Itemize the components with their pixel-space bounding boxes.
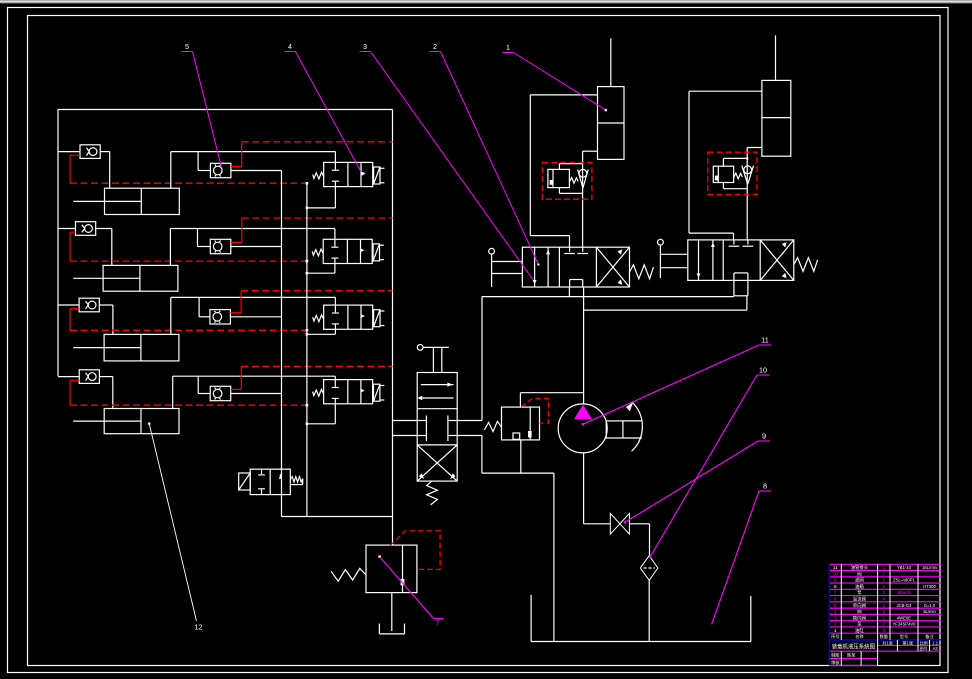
leader 2 (to valve1 flow path) [430, 42, 540, 266]
svg-text:5: 5 [185, 42, 189, 51]
svg-text:备注: 备注 [925, 633, 934, 640]
red pilot riser row4 (to solenoid pilot header) [231, 366, 393, 389]
svg-text:4WE6E: 4WE6E [897, 615, 911, 620]
wire C1 cap-side port via counterbalance to MV1 B [583, 151, 598, 247]
svg-text:1: 1 [883, 578, 886, 583]
junction dot row3 valve drain at bus [306, 333, 309, 336]
check valve CV1 (row 1 inlet check) [80, 145, 100, 159]
main reservoir tank T8 [531, 595, 751, 642]
CB1 check valve [578, 169, 589, 188]
wire row4 branch to pilot check valve [198, 376, 210, 393]
svg-text:油管接头: 油管接头 [851, 564, 869, 571]
CB2 spring (right of box) [734, 173, 743, 179]
wire SV9 to filter [629, 524, 649, 556]
wire pump outlet riser [583, 310, 585, 404]
lever of MV2 [658, 239, 688, 278]
wire C2 rod-side port to MV2 A [689, 91, 762, 240]
pilot-check outlet bus (A line) [281, 171, 283, 517]
wire row2 valve tank port to node bus [307, 264, 335, 274]
spring of SH1 [290, 477, 302, 485]
cylinder Y3 (clamp cylinder row 3) [73, 334, 179, 361]
wire row3 check valve to cylinder cap port [99, 305, 113, 334]
svg-text:第1张: 第1张 [902, 640, 914, 647]
svg-text:比例: 比例 [920, 640, 928, 646]
svg-text:YB1-10: YB1-10 [897, 565, 912, 570]
leader 5 (to pilot check PC1) [182, 42, 222, 168]
svg-text:10: 10 [833, 571, 839, 576]
wire RV7 outlet to tank [391, 593, 393, 624]
svg-text:2: 2 [433, 42, 437, 51]
leader 10 (to filter FL10) [649, 366, 769, 558]
wire row1 check valve to cylinder cap port [100, 152, 110, 189]
pump variable arc arrow [626, 402, 642, 452]
svg-text:9: 9 [762, 432, 766, 441]
wire UV6 top to pump outlet [520, 393, 583, 407]
svg-text:名称: 名称 [855, 633, 863, 640]
solenoid actuator of SV4 [374, 384, 385, 401]
bottom header joining buses to pump line [282, 516, 393, 518]
leader 9 (to shutoff SV9) [624, 432, 770, 524]
wire row4 pilot check outlet to A bus [231, 393, 282, 395]
svg-text:7: 7 [834, 590, 837, 595]
leader 11 (to pump PU11) [582, 336, 771, 426]
leader 4 (to solenoid valve SV1) [285, 42, 366, 176]
CB2 pilot valve box [713, 166, 733, 182]
T return header [482, 296, 734, 298]
svg-text:图号: 图号 [920, 645, 928, 651]
manual 4/3 valve MV2 (circuit 2) [688, 240, 794, 281]
wire MV3 left ports to P bus [393, 421, 418, 436]
pilot unload valve UV6 body [502, 407, 540, 440]
svg-text:A3: A3 [933, 646, 939, 651]
lever of MV3 (top) [417, 345, 448, 373]
svg-text:ZSL-A80P1: ZSL-A80P1 [893, 578, 915, 583]
red pilot riser row3 (to solenoid pilot header) [230, 291, 392, 313]
svg-text:HT300: HT300 [923, 584, 936, 589]
junction dot CB2 top [746, 157, 748, 159]
spring of SV2 [312, 249, 323, 256]
svg-text:单向阀: 单向阀 [853, 602, 866, 609]
CB1 pilot valve box [548, 169, 570, 187]
spring of UV6 (left) [484, 421, 501, 431]
svg-text:11: 11 [761, 336, 768, 345]
leader 7 (to relief valve RV7) [378, 555, 443, 627]
svg-text:阀: 阀 [857, 608, 861, 615]
MV3 centre position blocked ports [417, 416, 457, 442]
svg-text:1: 1 [883, 603, 886, 608]
wire row2 check valve to cylinder cap port [96, 229, 112, 266]
spring of SV3 [313, 315, 324, 322]
hydraulic pump PU11 (variable) [558, 404, 607, 453]
svg-text:8: 8 [834, 584, 837, 589]
junction dot row4 valve drain at bus [306, 423, 309, 426]
red pilot loop of RV7 [390, 531, 440, 570]
check valve CV3 (row 3 inlet check) [79, 298, 99, 312]
pilot check valve PC4 (row 4) [210, 386, 231, 400]
wire MV3 lower right port to drain [457, 436, 482, 474]
junction dot row2 valve drain at bus [306, 272, 309, 275]
solenoid drain bus (node line) [306, 183, 308, 516]
spring of MV1 (right) [630, 265, 654, 279]
wire row4 rod-side line to valve [173, 376, 336, 408]
wire C2 cap-side port via counterbalance to MV2 B [747, 148, 762, 240]
svg-text:滤网: 滤网 [855, 577, 864, 584]
suction filter FL10 (diamond) [640, 556, 658, 581]
pump compensator box [606, 421, 642, 438]
svg-text:YF34SP4V0: YF34SP4V0 [892, 622, 916, 627]
svg-text:阀: 阀 [857, 570, 861, 577]
red pilot line row4 (from check valve, dashed to node bus) [70, 380, 307, 405]
MV1 tank/pressure U below [569, 287, 583, 310]
leader 1 (to cylinder C1) [503, 43, 608, 111]
svg-text:JCB-G4: JCB-G4 [897, 603, 913, 608]
lift cylinder C1 [598, 39, 625, 160]
red pilot riser row1 (to solenoid pilot header) [231, 142, 393, 167]
wire row3 branch to pilot check valve [199, 297, 210, 316]
wire row4 valve tank port to node bus [307, 404, 335, 424]
title block texts (parts list) [831, 564, 938, 640]
wire filter to tank [648, 580, 650, 641]
svg-text:1: 1 [883, 584, 886, 589]
svg-text:5: 5 [834, 603, 837, 608]
svg-text:6: 6 [834, 597, 837, 602]
pilot check valve PC3 (row 3) [210, 310, 231, 324]
svg-text:型号: 型号 [900, 633, 908, 640]
svg-text:制图: 制图 [831, 652, 839, 659]
drain header to tank [482, 473, 554, 641]
wire row4 check valve to cylinder cap port [99, 377, 112, 409]
junction dot row2 pilot at T bus [306, 260, 309, 263]
red pilot loop of UV6 [521, 399, 549, 424]
junction dot row1 pilot at T bus [306, 182, 309, 185]
spring of SV1 [313, 172, 324, 179]
wire C1 rod-side port to MV1 A [530, 95, 597, 247]
solenoid actuator of SV2 [373, 244, 384, 261]
svg-text:1: 1 [883, 565, 886, 570]
svg-text:油箱: 油箱 [855, 583, 864, 590]
wire pump suction [584, 453, 611, 524]
solenoid shutoff valve SH1 (2/2 on A bus) [250, 469, 290, 494]
svg-text:3: 3 [883, 628, 886, 633]
spring of SV4 [313, 389, 324, 396]
svg-text:换向阀: 换向阀 [853, 614, 866, 621]
wire row2 branch to pilot check valve [198, 229, 211, 247]
wire row4 supply to check valve [58, 376, 79, 378]
wire row2 supply to check valve [58, 228, 76, 230]
main pressure riser P bus (right vertical) [392, 110, 394, 546]
svg-text:2: 2 [883, 590, 886, 595]
solenoid actuator of SV1 [374, 167, 385, 184]
junction dot row3 pilot at T bus [306, 329, 309, 332]
leader 12 (to cylinder Y4) - white [148, 423, 202, 632]
svg-text:序号: 序号 [831, 633, 839, 640]
svg-text:1:1: 1:1 [932, 641, 938, 646]
red pilot line row2 (from check valve, dashed to node bus) [70, 232, 307, 261]
red pilot riser row2 (to solenoid pilot header) [231, 218, 393, 242]
tank symbol T2 (relief drain) [379, 624, 404, 634]
svg-text:8: 8 [763, 482, 767, 491]
counterbalance valve CB1 enclosure (red dashed) [542, 163, 592, 200]
CB2 internal connections [723, 158, 747, 188]
svg-text:1: 1 [883, 571, 886, 576]
title block signature rows [831, 652, 856, 666]
svg-text:XDa/40: XDa/40 [897, 590, 912, 595]
lift cylinder C2 [762, 35, 791, 156]
pilot check valve PC1 (row 1) [210, 163, 231, 177]
CB1 internal connections [559, 164, 582, 194]
wire row1 supply to check valve [58, 151, 80, 153]
check valve CV4 (row 4 inlet check) [79, 370, 99, 384]
title block drawing title [832, 640, 939, 652]
counterbalance valve CB2 enclosure (red dashed) [708, 152, 757, 194]
svg-text:5L/min: 5L/min [923, 609, 936, 614]
wire row1 pilot check outlet to A bus [231, 170, 282, 172]
relief valve RV7 body [366, 545, 417, 593]
manual 4/3 valve MV3 body (vertical) [417, 373, 457, 482]
cylinder Y1 (clamp cylinder row 1) [73, 188, 179, 214]
wire P bus to RV7 inlet [392, 544, 394, 545]
shutoff valve SV9 (bowtie) [610, 513, 629, 534]
svg-text:4: 4 [288, 42, 292, 51]
svg-text:10: 10 [759, 366, 767, 375]
svg-text:2: 2 [834, 622, 837, 627]
leader 3 (to MV? valve item 3) [360, 42, 534, 280]
manual 4/3 valve MV1 (circuit 1) [522, 247, 629, 287]
red pilot line row3 (from check valve, dashed to node bus) [70, 309, 307, 331]
junction dot row1 valve drain at bus [306, 207, 309, 210]
svg-text:1: 1 [883, 609, 886, 614]
svg-text:1: 1 [883, 615, 886, 620]
MV3 top position flow arrows [417, 382, 453, 400]
wire MV3 upper right port to T header [457, 297, 482, 421]
lever of MV1 [489, 248, 523, 287]
spring of MV3 (bottom) [427, 481, 438, 505]
svg-text:泵: 泵 [857, 590, 862, 595]
svg-text:7: 7 [436, 619, 440, 628]
left group supply bus (left vertical) [57, 110, 59, 377]
pump flow triangle (magenta) [574, 405, 592, 419]
red pilot line row1 (from check valve, dashed to node bus) [70, 155, 307, 183]
svg-text:1: 1 [834, 628, 837, 633]
svg-text:4: 4 [883, 597, 886, 602]
svg-text:16L/min: 16L/min [922, 565, 938, 570]
CB2 check valve [742, 166, 754, 185]
spring of RV7 (left) [331, 568, 366, 581]
title block table grid [829, 564, 941, 665]
svg-text:韩某: 韩某 [847, 652, 856, 659]
svg-text:装载机液压系统图: 装载机液压系统图 [832, 642, 875, 650]
solenoid valve SV3 (2-position, row 3) [324, 305, 373, 329]
left group top bus line [58, 109, 393, 111]
wire row2 pilot check outlet to A bus [231, 246, 282, 248]
wire row3 valve tank port to node bus [307, 329, 336, 334]
check valve CV2 (row 2 inlet check) [76, 222, 96, 236]
svg-text:G=1.0: G=1.0 [924, 603, 936, 608]
svg-text:油缸: 油缸 [855, 627, 864, 634]
wire row3 supply to check valve [58, 304, 79, 306]
window top bar [0, 0, 972, 4]
solenoid valve SV2 (2-position, row 2) [323, 239, 372, 263]
P pressure header [584, 296, 747, 310]
svg-text:数量: 数量 [880, 633, 888, 640]
svg-text:溢流阀: 溢流阀 [853, 596, 866, 603]
wire UV6 drain down [520, 440, 522, 473]
svg-text:9: 9 [834, 578, 837, 583]
wire row2 rod-side line to valve [170, 229, 335, 266]
solenoid valve SV1 (2-position, row 1) [324, 162, 373, 186]
cylinder Y2 (clamp cylinder row 2) [73, 265, 178, 291]
svg-text:1: 1 [506, 43, 510, 52]
solenoid actuator of SH1 [239, 473, 251, 490]
spring of MV2 (right) [794, 258, 818, 272]
svg-text:4: 4 [834, 609, 837, 614]
svg-text:共1张: 共1张 [882, 640, 894, 647]
svg-text:12: 12 [195, 623, 203, 632]
svg-text:3: 3 [363, 42, 367, 51]
wire row1 rod-side line to valve [171, 152, 336, 189]
wire row1 branch to pilot check valve [198, 152, 210, 171]
solenoid valve SV4 (2-position, row 4) [324, 380, 373, 404]
pilot check valve PC2 (row 2) [210, 239, 231, 253]
wire row1 valve tank port to node bus [307, 187, 336, 208]
svg-text:11: 11 [833, 565, 838, 570]
CB1 spring (right of box) [569, 178, 578, 184]
cylinder Y4 (clamp cylinder row 4) [73, 409, 179, 434]
wire row3 pilot check outlet to A bus [230, 316, 281, 318]
solenoid actuator of SV3 [374, 310, 385, 327]
svg-text:泵: 泵 [857, 622, 862, 627]
leader 8 (to tank T8) [712, 482, 771, 625]
MV3 bottom position crossed arrows [417, 445, 457, 481]
junction dot row4 pilot at T bus [306, 404, 309, 407]
svg-text:审核: 审核 [831, 659, 840, 666]
svg-text:2: 2 [883, 622, 886, 627]
wire row3 rod-side line to valve [171, 297, 336, 334]
svg-text:3: 3 [834, 615, 837, 620]
MV2 tank/pressure U below [734, 280, 748, 295]
